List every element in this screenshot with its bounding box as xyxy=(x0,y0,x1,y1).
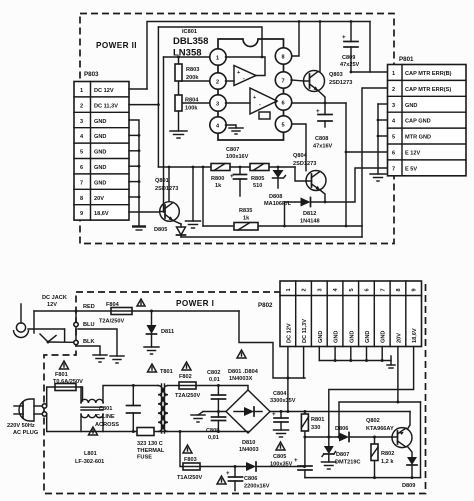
wire BLU xyxy=(78,329,117,356)
svg-text:20V: 20V xyxy=(94,196,104,202)
svg-text:3300x35V: 3300x35V xyxy=(270,398,296,404)
pin 6 xyxy=(275,94,291,110)
fuse F803 xyxy=(177,445,202,481)
wire BLK xyxy=(76,346,100,355)
svg-text:C807: C807 xyxy=(226,147,239,153)
transformer T801 xyxy=(148,364,173,433)
svg-text:RED: RED xyxy=(83,304,95,310)
wire C806 leads xyxy=(234,467,236,478)
svg-text:GND: GND xyxy=(94,150,106,156)
capacitor C806 xyxy=(217,470,270,490)
wire secondary bottom to F803 xyxy=(180,432,183,467)
wire L801 out bottom xyxy=(80,387,82,403)
wire AC hot to F801 xyxy=(47,387,55,406)
pin 4 xyxy=(210,117,226,133)
ground BLU xyxy=(110,356,124,363)
svg-text:D812: D812 xyxy=(303,211,316,217)
svg-text:DC 11,3V: DC 11,3V xyxy=(302,319,308,343)
resistor R835 xyxy=(234,208,258,230)
wire pin8 to rail xyxy=(291,22,299,57)
svg-text:THERMAL: THERMAL xyxy=(137,448,165,454)
svg-text:LF-302-601: LF-302-601 xyxy=(75,459,104,465)
svg-text:R803: R803 xyxy=(186,67,199,73)
POWER II dashed enclosure xyxy=(80,14,394,244)
op-amp B xyxy=(226,88,278,119)
svg-text:D806: D806 xyxy=(335,426,348,432)
svg-text:C801: C801 xyxy=(99,406,112,412)
pin 5 xyxy=(275,116,291,132)
svg-text:6: 6 xyxy=(80,165,83,171)
svg-text:F801: F801 xyxy=(55,372,68,378)
wire P803-8 20V xyxy=(129,196,139,198)
resistor R803 xyxy=(175,64,199,81)
svg-text:P803: P803 xyxy=(84,71,99,78)
wire L801 out top xyxy=(103,386,158,404)
svg-text:18,6V: 18,6V xyxy=(412,328,418,343)
capacitor C808 xyxy=(313,103,333,150)
svg-text:+: + xyxy=(226,470,230,477)
svg-text:MA106R/L: MA106R/L xyxy=(264,201,292,207)
svg-text:1k: 1k xyxy=(215,183,222,189)
wire F803 to D810 xyxy=(200,466,246,468)
line filter L801 xyxy=(75,399,104,465)
svg-text:DC 12V: DC 12V xyxy=(94,88,114,94)
svg-text:DC 12V: DC 12V xyxy=(286,323,292,343)
wire D807 leads xyxy=(328,437,330,446)
svg-text:1N4148: 1N4148 xyxy=(300,219,320,225)
svg-text:R835: R835 xyxy=(239,208,252,214)
wire pin6 node xyxy=(291,102,346,104)
wire pin5 to Q804 collector xyxy=(291,124,306,171)
svg-text:D809: D809 xyxy=(402,483,415,489)
wire P801-2 down xyxy=(362,88,387,226)
svg-text:DMT219C: DMT219C xyxy=(335,460,361,466)
connector P801 xyxy=(388,56,467,176)
svg-text:P801: P801 xyxy=(399,56,414,63)
svg-text:D807: D807 xyxy=(336,452,349,458)
svg-text:T1A/250V: T1A/250V xyxy=(177,475,202,481)
svg-text:GND: GND xyxy=(381,331,387,343)
svg-text:1,2 k: 1,2 k xyxy=(381,459,394,465)
wire C801 taps xyxy=(132,386,134,406)
transistor Q801 xyxy=(155,178,179,221)
svg-text:F802: F802 xyxy=(179,374,192,380)
svg-text:CAP GND: CAP GND xyxy=(405,119,431,125)
wire jack tip xyxy=(28,328,65,330)
svg-text:C802: C802 xyxy=(207,370,220,376)
wire AC plug leads xyxy=(34,405,42,407)
svg-text:GND: GND xyxy=(94,165,106,171)
wire P801 gnd bracket xyxy=(378,103,387,105)
wire Q802 emitter xyxy=(408,412,411,430)
wire 12V top rail xyxy=(147,22,370,90)
svg-text:3: 3 xyxy=(392,103,395,109)
svg-text:0,01: 0,01 xyxy=(208,435,219,441)
wire D811 drop xyxy=(151,311,153,325)
svg-text:Q803: Q803 xyxy=(329,72,343,78)
ground P802 bus xyxy=(387,356,395,368)
svg-text:2: 2 xyxy=(216,80,219,86)
transistor Q802 xyxy=(366,418,412,448)
svg-text:E 5V: E 5V xyxy=(405,166,417,172)
svg-text:18,6V: 18,6V xyxy=(94,211,109,217)
svg-text:DC 11,3V: DC 11,3V xyxy=(94,103,118,109)
svg-text:7: 7 xyxy=(80,180,83,186)
svg-text:2SD1273: 2SD1273 xyxy=(329,80,352,86)
wire P803-9 xyxy=(129,211,160,213)
capacitor C804 xyxy=(270,391,296,437)
wire bottom rail B xyxy=(181,236,362,238)
svg-text:+: + xyxy=(294,457,298,464)
svg-text:C806: C806 xyxy=(244,476,257,482)
transistor Q804 xyxy=(293,153,326,191)
svg-text:DC JACK: DC JACK xyxy=(42,295,67,301)
wire R803/R804 chain xyxy=(178,57,180,64)
wire Q804 emitter to D812 xyxy=(320,190,325,202)
capacitor C800 xyxy=(206,417,226,441)
svg-text:2: 2 xyxy=(80,103,83,109)
resistor R804 xyxy=(175,95,199,112)
ground BLK xyxy=(93,355,107,362)
resistor R800 xyxy=(211,164,230,190)
svg-text:2SD1273: 2SD1273 xyxy=(293,161,316,167)
POWER II parts xyxy=(154,20,360,237)
wire P802-2 column xyxy=(303,347,305,379)
wire left rail xyxy=(163,57,165,212)
resistor R805 xyxy=(250,164,269,190)
wire Q802 collector to D809 xyxy=(408,447,413,458)
ground pin4 xyxy=(226,125,244,134)
svg-text:C-LINE: C-LINE xyxy=(96,414,115,420)
svg-text:5: 5 xyxy=(349,288,355,291)
svg-text:GND: GND xyxy=(94,134,106,140)
wire AC neutral rail xyxy=(47,414,137,432)
svg-text:3: 3 xyxy=(80,119,83,125)
svg-text:FUSE: FUSE xyxy=(137,455,152,461)
svg-text:D810: D810 xyxy=(242,440,255,446)
thermal fuse xyxy=(137,428,165,461)
svg-text:8: 8 xyxy=(396,288,402,291)
svg-text:9: 9 xyxy=(412,288,418,291)
bridge rectifier D801-D804 xyxy=(226,350,270,433)
ground mid node xyxy=(191,412,205,423)
svg-text:LN358: LN358 xyxy=(173,48,202,59)
svg-text:2SD1273: 2SD1273 xyxy=(155,186,178,192)
connector P803 xyxy=(74,71,129,220)
svg-text:T2A/250V: T2A/250V xyxy=(99,319,124,325)
diode D807 zener xyxy=(322,446,361,466)
svg-text:GND: GND xyxy=(318,331,324,343)
svg-text:7: 7 xyxy=(392,166,395,172)
svg-text:8: 8 xyxy=(80,196,83,202)
svg-text:7: 7 xyxy=(380,288,386,291)
pin 3 xyxy=(210,95,226,111)
wire mid node to bridge left xyxy=(203,411,226,413)
svg-text:ACROSS: ACROSS xyxy=(95,422,119,428)
svg-text:GND: GND xyxy=(94,119,106,125)
wire 20V drop xyxy=(202,167,204,226)
capacitor C809 xyxy=(340,20,360,73)
diode D811 xyxy=(147,325,175,335)
svg-text:7: 7 xyxy=(282,79,285,85)
diode D810 xyxy=(239,440,259,471)
transistor Q803 xyxy=(291,71,352,92)
svg-text:5: 5 xyxy=(80,150,83,156)
svg-text:1: 1 xyxy=(80,88,83,94)
svg-text:1N4003X: 1N4003X xyxy=(229,376,253,382)
connector P802 xyxy=(258,281,422,347)
svg-text:5: 5 xyxy=(392,135,395,141)
POWER II wires xyxy=(129,20,387,237)
wire D810 out 11.3V xyxy=(257,466,305,468)
svg-text:POWER II: POWER II xyxy=(96,41,137,50)
wire Q803 collector xyxy=(319,22,321,72)
svg-text:Q802: Q802 xyxy=(366,418,380,424)
svg-text:-: - xyxy=(243,76,245,82)
svg-text:6: 6 xyxy=(282,101,285,107)
POWER I parts xyxy=(7,295,417,490)
svg-text:T2A/250V: T2A/250V xyxy=(175,393,200,399)
resistor R802 xyxy=(371,444,394,465)
svg-text:20V: 20V xyxy=(396,333,402,343)
svg-text:Q804: Q804 xyxy=(293,153,308,159)
svg-text:100x16V: 100x16V xyxy=(226,154,249,160)
wire R801 leads xyxy=(304,412,306,415)
svg-text:GND: GND xyxy=(405,103,417,109)
svg-text:220V 50Hz: 220V 50Hz xyxy=(7,423,35,429)
svg-text:T801: T801 xyxy=(160,369,173,375)
svg-text:8: 8 xyxy=(282,55,285,61)
svg-text:6: 6 xyxy=(365,288,371,291)
svg-text:R802: R802 xyxy=(381,451,394,457)
DC jack J1 xyxy=(14,295,67,338)
svg-text:100x35V: 100x35V xyxy=(270,462,293,468)
wire return rail xyxy=(305,477,421,479)
ground D811 xyxy=(144,347,159,354)
pin 1 xyxy=(210,49,226,65)
svg-text:Q801: Q801 xyxy=(155,178,169,184)
svg-text:C809: C809 xyxy=(342,55,355,61)
pin 8 xyxy=(275,48,291,64)
wire R802 leads xyxy=(374,437,376,444)
wire base line xyxy=(305,436,339,438)
resistor R801 xyxy=(301,414,324,431)
svg-text:1N4003: 1N4003 xyxy=(239,447,259,453)
svg-text:C808: C808 xyxy=(315,136,328,142)
ground D807 xyxy=(322,462,337,469)
capacitor C805 xyxy=(270,442,312,470)
svg-text:MTR GND: MTR GND xyxy=(405,135,431,141)
svg-text:1: 1 xyxy=(286,288,292,291)
svg-text:+: + xyxy=(272,411,276,418)
svg-text:BLK: BLK xyxy=(83,339,95,345)
svg-text:2: 2 xyxy=(392,87,395,93)
svg-text:100k: 100k xyxy=(185,106,198,112)
wire gnd bus P802 xyxy=(318,347,320,361)
diode D805 xyxy=(154,221,186,238)
svg-text:1k: 1k xyxy=(243,216,250,222)
wire mid bias line xyxy=(158,166,211,168)
svg-text:12V: 12V xyxy=(47,302,57,308)
svg-text:P802: P802 xyxy=(258,302,273,309)
svg-text:D805: D805 xyxy=(154,227,167,233)
svg-text:BLU: BLU xyxy=(83,322,95,328)
svg-text:2: 2 xyxy=(302,288,308,291)
svg-text:R801: R801 xyxy=(311,417,324,423)
svg-text:KTA966AY: KTA966AY xyxy=(366,426,394,432)
capacitor C801 xyxy=(95,406,140,429)
fuse F802 xyxy=(175,362,200,399)
wire + rail xyxy=(270,411,410,413)
svg-text:1: 1 xyxy=(216,56,219,62)
wire P802-8 20V route xyxy=(339,347,398,438)
svg-text:47x16V: 47x16V xyxy=(313,144,333,150)
svg-text:0,01: 0,01 xyxy=(209,377,220,383)
svg-text:C805: C805 xyxy=(273,454,286,460)
svg-text:-: - xyxy=(259,102,261,108)
POWER I dashed enclosure xyxy=(44,284,426,494)
svg-text:IC801: IC801 xyxy=(182,29,197,35)
wire P802-9 18.6V route xyxy=(329,347,414,438)
svg-text:R800: R800 xyxy=(211,176,224,182)
wire P802-1 column xyxy=(287,347,289,412)
svg-text:L801: L801 xyxy=(84,451,97,457)
wire P803 gnd bus xyxy=(129,120,139,226)
svg-text:C804: C804 xyxy=(273,391,287,397)
svg-text:R805: R805 xyxy=(251,176,264,182)
diode D812 xyxy=(300,198,325,225)
svg-text:+: + xyxy=(342,34,346,41)
wire C802/C800 column xyxy=(217,386,219,396)
wire T801 secondary top to F802 xyxy=(168,385,179,387)
op-amp A xyxy=(226,57,266,86)
wire F802 to bridge xyxy=(196,386,248,391)
svg-text:AC PLUG: AC PLUG xyxy=(13,430,38,436)
fuse F801 xyxy=(53,361,83,391)
wire P803-1 to rail xyxy=(129,88,147,90)
svg-text:3: 3 xyxy=(317,288,323,291)
svg-text:5: 5 xyxy=(282,123,285,129)
svg-text:C800: C800 xyxy=(206,428,219,434)
svg-text:E 12V: E 12V xyxy=(405,151,421,157)
fuse F804 xyxy=(99,299,145,325)
pin 2 xyxy=(210,73,226,89)
svg-text:GND: GND xyxy=(365,331,371,343)
svg-text:D808: D808 xyxy=(269,194,282,200)
svg-text:D811: D811 xyxy=(161,329,174,335)
POWER I wires xyxy=(28,304,421,491)
svg-text:R804: R804 xyxy=(185,98,199,104)
capacitor C802 xyxy=(207,370,226,399)
svg-text:CAP MTR ERR(S): CAP MTR ERR(S) xyxy=(405,87,451,93)
wire P803-2 down-feed xyxy=(129,104,158,106)
wire P801-6 E12V xyxy=(346,151,387,153)
svg-text:200k: 200k xyxy=(186,75,199,81)
wire Q801 collector xyxy=(168,167,170,202)
svg-text:47x25V: 47x25V xyxy=(340,62,360,68)
capacitor C807 xyxy=(226,147,249,196)
diode D806 xyxy=(335,426,349,442)
svg-text:510: 510 xyxy=(253,183,262,189)
wire Q803 emitter xyxy=(318,91,325,104)
wire P801-7 E5V xyxy=(325,168,387,202)
AC plug xyxy=(7,399,38,436)
svg-text:1: 1 xyxy=(392,71,395,77)
wire jack column xyxy=(75,311,77,346)
svg-text:6: 6 xyxy=(392,151,395,157)
wire P801-1 row xyxy=(370,22,387,73)
svg-text:GND: GND xyxy=(349,331,355,343)
ground below R804 xyxy=(170,131,187,138)
svg-text:2200x16V: 2200x16V xyxy=(244,484,270,490)
wire F801 to L801 xyxy=(76,387,83,401)
ground P803 xyxy=(132,225,146,227)
svg-text:GND: GND xyxy=(334,331,340,343)
svg-text:F803: F803 xyxy=(184,457,197,463)
svg-text:323 130 C: 323 130 C xyxy=(137,441,163,447)
svg-text:9: 9 xyxy=(80,211,83,217)
svg-text:GND: GND xyxy=(94,180,106,186)
svg-text:POWER I: POWER I xyxy=(176,299,214,308)
svg-text:DBL358: DBL358 xyxy=(173,36,208,47)
wire bottom rail A xyxy=(203,225,234,227)
diode D809 xyxy=(402,457,417,489)
wire jack sleeve xyxy=(64,329,66,342)
pin 7 xyxy=(275,72,291,88)
op-amp U IC801 DBL358 outline xyxy=(173,29,284,140)
wire C805 leads xyxy=(304,437,306,466)
diode D808 xyxy=(264,167,292,207)
svg-text:330: 330 xyxy=(311,425,320,431)
wire RED 12V line xyxy=(34,310,111,312)
svg-text:D801 .D804: D801 .D804 xyxy=(228,369,259,375)
svg-text:3: 3 xyxy=(216,102,219,108)
svg-text:CAP MTR ERR(B): CAP MTR ERR(B) xyxy=(405,71,452,77)
